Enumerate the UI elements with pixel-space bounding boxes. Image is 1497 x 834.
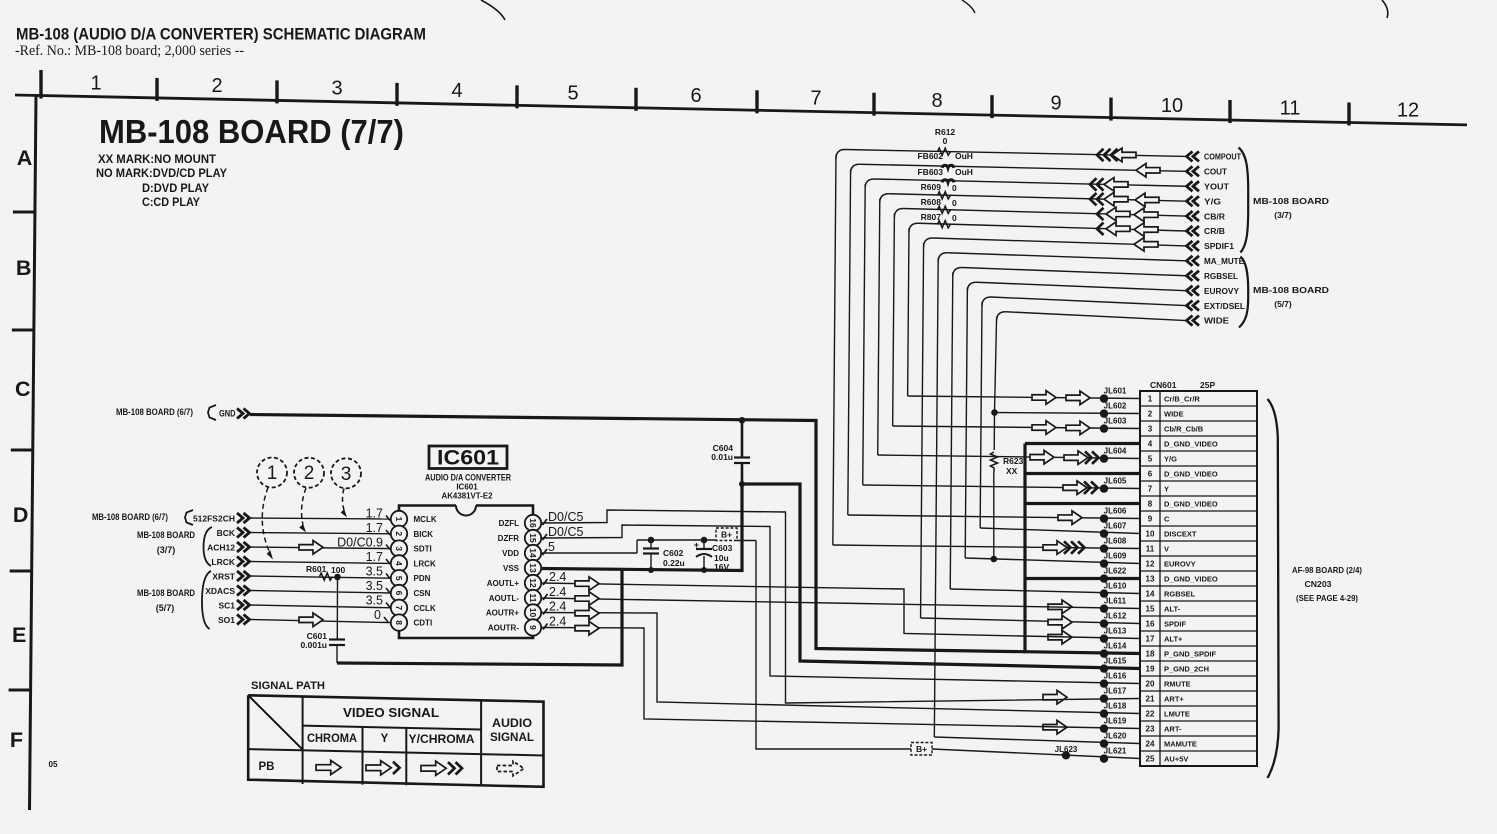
svg-text:512FS2CH: 512FS2CH [193,514,235,524]
svg-text:CR/B: CR/B [1204,227,1225,236]
svg-text:LRCK: LRCK [211,557,235,567]
svg-text:3.5: 3.5 [366,594,383,608]
svg-text:JL612: JL612 [1104,612,1127,621]
svg-text:MA_MUTE: MA_MUTE [1204,257,1245,266]
svg-text:CSN: CSN [414,589,431,598]
svg-text:7: 7 [394,605,404,610]
svg-text:10: 10 [1146,530,1155,539]
svg-text:JL614: JL614 [1104,642,1127,651]
svg-text:VSS: VSS [503,564,520,573]
svg-text:23: 23 [1146,725,1155,734]
svg-text:24: 24 [1146,740,1155,749]
svg-text:16: 16 [528,518,538,528]
svg-text:MB-108 BOARD: MB-108 BOARD [137,530,195,540]
svg-text:13: 13 [528,563,538,573]
svg-text:PB: PB [259,761,275,773]
svg-text:D: D [13,503,29,527]
svg-text:D0/C5: D0/C5 [548,525,583,539]
svg-text:10: 10 [1161,95,1183,117]
svg-text:AOUTL-: AOUTL- [489,594,520,603]
svg-text:ART+: ART+ [1164,695,1184,704]
svg-text:MB-108 BOARD (6/7): MB-108 BOARD (6/7) [116,407,193,417]
svg-text:MB-108 BOARD: MB-108 BOARD [1253,196,1329,206]
svg-text:F: F [10,728,23,752]
svg-text:JL620: JL620 [1104,732,1127,741]
svg-text:1: 1 [90,73,101,95]
svg-text:3: 3 [1148,425,1153,434]
svg-text:CB/R: CB/R [1204,212,1225,221]
svg-text:JL605: JL605 [1104,477,1127,486]
svg-text:4: 4 [451,80,462,102]
svg-text:MB-108 (AUDIO D/A CONVERTER: MB-108 (AUDIO D/A CONVERTER) SCHEMATIC D… [16,26,426,44]
svg-text:3: 3 [331,78,342,100]
svg-text:IC601: IC601 [437,447,499,470]
svg-text:2.4: 2.4 [549,600,566,614]
svg-text:ALT+: ALT+ [1164,635,1183,644]
svg-text:2: 2 [304,463,315,484]
svg-text:JL615: JL615 [1104,657,1127,666]
svg-text:-Ref. No.: MB-108 board; 2,000: -Ref. No.: MB-108 board; 2,000 series -- [15,43,244,59]
svg-text:9: 9 [1148,515,1153,524]
svg-text:R608: R608 [921,197,942,207]
svg-text:AOUTL+: AOUTL+ [487,579,520,588]
svg-text:9: 9 [528,625,538,630]
svg-text:JL607: JL607 [1104,522,1127,531]
svg-text:FB602: FB602 [917,151,943,161]
svg-text:15: 15 [528,533,538,543]
svg-text:AOUTR+: AOUTR+ [486,609,519,618]
svg-text:(5/7): (5/7) [1274,299,1292,309]
svg-text:MB-108 BOARD (7/7): MB-108 BOARD (7/7) [99,113,404,150]
svg-text:YOUT: YOUT [1204,182,1229,191]
svg-text:RMUTE: RMUTE [1164,680,1191,689]
svg-text:12: 12 [1397,100,1419,122]
svg-text:A: A [17,146,33,170]
svg-text:JL606: JL606 [1104,507,1127,516]
svg-text:12: 12 [1146,560,1155,569]
svg-text:AUDIO: AUDIO [492,718,532,730]
svg-text:Y: Y [381,733,389,745]
svg-text:11: 11 [528,594,538,603]
svg-text:C: C [1164,515,1170,524]
svg-text:R623: R623 [1003,456,1024,466]
svg-text:V: V [1164,545,1169,554]
svg-text:JL604: JL604 [1104,447,1127,456]
svg-text:C:CD PLAY: C:CD PLAY [142,195,200,209]
svg-text:10: 10 [528,608,538,618]
svg-text:RGBSEL: RGBSEL [1164,590,1196,599]
svg-text:E: E [12,623,26,647]
svg-text:Cb/R_Cb/B: Cb/R_Cb/B [1164,425,1204,434]
svg-text:2: 2 [1148,410,1153,419]
svg-text:20: 20 [1146,680,1155,689]
svg-text:VIDEO SIGNAL: VIDEO SIGNAL [343,706,439,720]
svg-text:D_GND_VIDEO: D_GND_VIDEO [1164,500,1218,509]
svg-text:3: 3 [341,464,352,485]
svg-text:1: 1 [267,463,278,484]
svg-text:D:DVD PLAY: D:DVD PLAY [142,181,209,195]
svg-text:0: 0 [952,183,957,193]
svg-text:DISCEXT: DISCEXT [1164,530,1197,539]
svg-text:0.22u: 0.22u [663,558,685,568]
svg-text:EXT/DSEL: EXT/DSEL [1204,302,1245,311]
svg-text:2.4: 2.4 [549,585,566,599]
svg-text:16: 16 [1146,620,1155,629]
svg-text:RGBSEL: RGBSEL [1204,272,1238,281]
svg-text:2.4: 2.4 [549,615,566,629]
svg-text:OuH: OuH [955,167,973,177]
svg-text:Y/G: Y/G [1204,197,1221,206]
svg-text:CHROMA: CHROMA [307,733,357,745]
svg-text:16V: 16V [714,562,729,572]
svg-text:25: 25 [1146,755,1155,764]
svg-text:17: 17 [1146,635,1155,644]
svg-text:1.7: 1.7 [366,507,383,521]
svg-text:P_GND_2CH: P_GND_2CH [1164,665,1209,674]
svg-text:(3/7): (3/7) [157,545,176,555]
svg-text:VDD: VDD [502,549,519,558]
svg-text:SIGNAL PATH: SIGNAL PATH [251,680,325,692]
svg-text:SC1: SC1 [218,601,235,611]
svg-text:COUT: COUT [1204,168,1227,177]
svg-text:GND: GND [219,409,236,419]
svg-text:R807: R807 [921,212,942,222]
svg-text:Y/G: Y/G [1164,455,1177,464]
svg-text:DZFR: DZFR [498,534,520,543]
svg-text:P_GND_SPDIF: P_GND_SPDIF [1164,650,1217,659]
svg-text:AF-98 BOARD (2/4): AF-98 BOARD (2/4) [1292,565,1362,575]
svg-text:9: 9 [1050,92,1061,114]
svg-text:AU+5V: AU+5V [1164,755,1188,764]
svg-text:4: 4 [1148,440,1153,449]
svg-text:3.5: 3.5 [366,565,383,579]
svg-text:SPDIF1: SPDIF1 [1204,242,1235,251]
svg-text:(3/7): (3/7) [1274,210,1292,220]
svg-text:LRCK: LRCK [414,559,436,568]
svg-text:EUROVY: EUROVY [1204,287,1240,296]
svg-text:05: 05 [49,760,58,769]
svg-text:2: 2 [394,531,404,536]
svg-text:D0/C5: D0/C5 [548,510,583,524]
svg-text:CCLK: CCLK [414,604,436,613]
svg-text:JL613: JL613 [1104,627,1127,636]
svg-text:CDTI: CDTI [414,619,433,628]
svg-text:SDTI: SDTI [414,545,432,554]
svg-text:11: 11 [1280,97,1301,119]
svg-text:11: 11 [1146,545,1155,554]
svg-text:4: 4 [394,561,404,566]
svg-text:B+: B+ [916,744,927,754]
svg-text:8: 8 [1148,500,1153,509]
svg-text:JL609: JL609 [1104,552,1127,561]
svg-text:BICK: BICK [414,530,434,539]
svg-text:22: 22 [1146,710,1155,719]
svg-text:AK4381VT-E2: AK4381VT-E2 [442,491,493,501]
svg-text:JL608: JL608 [1104,537,1127,546]
svg-text:SO1: SO1 [218,615,235,625]
svg-text:AOUTR-: AOUTR- [488,624,519,633]
svg-text:FB603: FB603 [917,167,943,177]
svg-text:3: 3 [394,546,404,551]
svg-text:8: 8 [394,620,404,625]
svg-text:1: 1 [1148,395,1153,404]
svg-text:COMPOUT: COMPOUT [1204,153,1241,162]
svg-text:R609: R609 [921,182,942,192]
svg-text:6: 6 [1148,470,1153,479]
svg-text:5: 5 [394,576,404,581]
svg-text:JL619: JL619 [1104,717,1127,726]
svg-text:1: 1 [394,517,404,522]
svg-text:SPDIF: SPDIF [1164,620,1187,629]
svg-text:WIDE: WIDE [1204,317,1230,326]
svg-text:14: 14 [528,548,538,558]
svg-text:CN601: CN601 [1150,380,1177,390]
svg-text:(SEE PAGE 4-29): (SEE PAGE 4-29) [1296,593,1358,603]
svg-text:5: 5 [567,82,578,104]
svg-text:CN203: CN203 [1305,579,1332,589]
svg-text:EUROVY: EUROVY [1164,560,1196,569]
svg-text:14: 14 [1146,590,1155,599]
svg-text:1.7: 1.7 [366,521,383,535]
svg-text:Y: Y [1164,485,1169,494]
svg-text:12: 12 [528,578,538,588]
svg-text:XX: XX [1006,466,1018,476]
svg-text:JL622: JL622 [1104,567,1127,576]
svg-text:Cr/B_Cr/R: Cr/B_Cr/R [1164,395,1200,404]
svg-text:D0/C0.9: D0/C0.9 [337,536,383,550]
svg-text:R601: R601 [306,564,327,574]
svg-text:5: 5 [548,540,555,554]
svg-text:5: 5 [1148,455,1153,464]
svg-text:WIDE: WIDE [1164,410,1184,419]
svg-text:JL618: JL618 [1104,702,1127,711]
svg-text:100: 100 [331,565,345,575]
svg-text:XX MARK:NO MOUNT: XX MARK:NO MOUNT [98,152,217,166]
svg-text:ACH12: ACH12 [207,543,235,553]
svg-text:Y/CHROMA: Y/CHROMA [409,734,475,746]
svg-text:JL621: JL621 [1104,747,1127,756]
svg-text:PDN: PDN [414,574,431,583]
svg-text:B: B [16,256,32,280]
svg-text:2: 2 [211,75,222,97]
svg-text:7: 7 [1148,485,1153,494]
svg-text:MCLK: MCLK [414,515,437,524]
svg-text:25P: 25P [1200,380,1215,390]
svg-text:JL601: JL601 [1104,387,1127,396]
svg-text:JL610: JL610 [1104,582,1127,591]
svg-text:MB-108 BOARD: MB-108 BOARD [137,588,195,598]
svg-text:19: 19 [1146,665,1155,674]
svg-text:13: 13 [1146,575,1155,584]
svg-text:0: 0 [374,608,381,622]
svg-text:0.001u: 0.001u [301,640,327,650]
svg-text:21: 21 [1146,695,1155,704]
svg-text:3.5: 3.5 [366,579,383,593]
svg-text:0: 0 [952,198,957,208]
svg-text:MAMUTE: MAMUTE [1164,740,1197,749]
svg-text:C: C [15,377,31,401]
svg-text:OuH: OuH [955,151,973,161]
svg-text:0.01u: 0.01u [711,452,733,462]
svg-text:XDACS: XDACS [205,586,235,596]
svg-text:JL617: JL617 [1104,687,1127,696]
svg-text:7: 7 [810,88,821,110]
svg-text:B+: B+ [721,530,732,540]
svg-text:2.4: 2.4 [549,570,566,584]
svg-text:D_GND_VIDEO: D_GND_VIDEO [1164,575,1218,584]
svg-text:ART-: ART- [1164,725,1182,734]
svg-text:C603: C603 [712,543,733,553]
svg-text:8: 8 [931,90,942,112]
svg-text:MB-108 BOARD: MB-108 BOARD [1253,285,1329,295]
svg-text:LMUTE: LMUTE [1164,710,1190,719]
svg-text:XRST: XRST [212,572,235,582]
svg-text:15: 15 [1146,605,1155,614]
svg-text:0: 0 [943,136,948,146]
svg-text:DZFL: DZFL [499,519,520,528]
svg-text:D_GND_VIDEO: D_GND_VIDEO [1164,470,1218,479]
svg-text:MB-108 BOARD (6/7): MB-108 BOARD (6/7) [92,512,168,522]
svg-text:SIGNAL: SIGNAL [490,732,534,744]
svg-text:JL603: JL603 [1104,417,1127,426]
svg-text:(5/7): (5/7) [156,603,175,613]
svg-text:BCK: BCK [217,528,236,538]
svg-text:18: 18 [1146,650,1155,659]
svg-text:JL602: JL602 [1104,402,1127,411]
svg-text:6: 6 [394,591,404,596]
svg-text:0: 0 [952,213,957,223]
svg-text:6: 6 [690,85,701,107]
svg-text:JL616: JL616 [1104,672,1127,681]
svg-text:ALT-: ALT- [1164,605,1181,614]
svg-text:C602: C602 [663,548,684,558]
svg-text:NO MARK:DVD/CD PLAY: NO MARK:DVD/CD PLAY [96,166,227,180]
svg-text:JL611: JL611 [1104,597,1127,606]
svg-text:1.7: 1.7 [366,550,383,564]
svg-text:D_GND_VIDEO: D_GND_VIDEO [1164,440,1218,449]
